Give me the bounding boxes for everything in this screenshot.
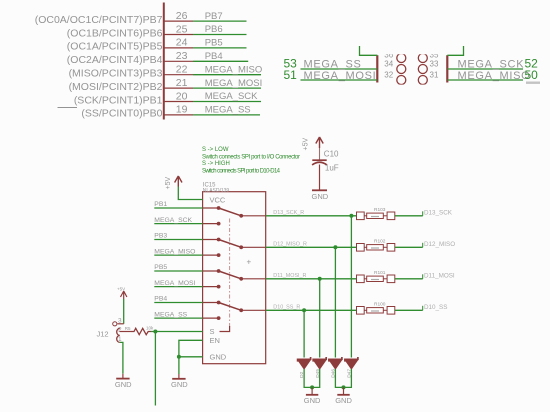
op-amp IC15 body <box>203 192 266 364</box>
node J12 jumper <box>97 318 132 344</box>
svg-text:36: 36 <box>384 50 393 59</box>
wire R5 to S pin <box>151 330 203 406</box>
wire GND pin of IC15 <box>177 355 203 359</box>
svg-text:D11_MOSI_R: D11_MOSI_R <box>273 273 306 279</box>
wire net MEGA_MISO from pin31 <box>447 79 523 81</box>
diode D46 <box>329 357 342 378</box>
node PB5 pin row <box>67 37 247 53</box>
svg-text:(MOSI/PCINT2)PB2: (MOSI/PCINT2)PB2 <box>69 81 163 93</box>
svg-text:PB5: PB5 <box>205 38 223 49</box>
svg-text:R100: R100 <box>374 302 386 308</box>
node connector contact circles row 3 <box>397 76 406 85</box>
svg-text:22: 22 <box>176 64 188 76</box>
node PB3 pin row <box>69 64 263 80</box>
svg-text:R101: R101 <box>374 270 386 276</box>
node connector contact circles row 1 <box>397 54 406 63</box>
svg-text:VCC: VCC <box>210 196 226 205</box>
svg-text:51: 51 <box>284 68 298 82</box>
wire to net label D10_SS <box>395 304 448 311</box>
wire MEGA_SS input <box>154 311 202 318</box>
ground for diodes 1-2 <box>304 395 321 405</box>
svg-text:S -> LOW: S -> LOW <box>202 147 229 153</box>
node partial next row marks <box>526 82 540 84</box>
wire net MEGA_SCK from pin33 <box>447 68 523 70</box>
svg-text:(OC1B/PCINT6)PB6: (OC1B/PCINT6)PB6 <box>67 27 163 39</box>
wire to net label D11_MOSI <box>395 273 455 280</box>
svg-text:PB5: PB5 <box>154 264 167 271</box>
svg-text:MEGA_SCK: MEGA_SCK <box>458 59 525 71</box>
svg-text:D12_MISO: D12_MISO <box>424 241 455 248</box>
resistor R100 <box>357 302 395 315</box>
svg-text:PB6: PB6 <box>205 24 223 35</box>
svg-text:25: 25 <box>176 23 188 35</box>
svg-text:(SS/PCINT0)PB0: (SS/PCINT0)PB0 <box>81 108 162 120</box>
ground for J12 <box>115 379 132 389</box>
svg-text:(OC2A/PCINT4)PB4: (OC2A/PCINT4)PB4 <box>67 54 163 66</box>
wire connector right body bar <box>446 55 448 82</box>
wire EN pin to ground <box>179 340 203 374</box>
svg-text:GND: GND <box>312 192 329 201</box>
transistor switch section 3 of IC15 <box>203 269 266 288</box>
diode D47 <box>345 357 358 378</box>
svg-text:(SCK/PCINT1)PB1: (SCK/PCINT1)PB1 <box>74 94 163 106</box>
node connector contact circles row 0 <box>397 42 406 51</box>
power +5V symbol for C10 <box>303 137 324 151</box>
wire net MEGA_SS to pin34 <box>301 68 378 70</box>
node PB4 pin row <box>67 50 248 66</box>
ground for diodes 3-4 <box>335 395 352 405</box>
wire +5V to C10 <box>319 148 321 160</box>
svg-text:D10_SS: D10_SS <box>424 304 447 311</box>
svg-text:GND: GND <box>115 380 132 389</box>
svg-text:MEGA_MOSI: MEGA_MOSI <box>205 78 263 89</box>
ground for IC15 <box>171 379 188 389</box>
svg-text:GND: GND <box>210 353 227 362</box>
svg-text:MEGA_SS: MEGA_SS <box>154 311 187 318</box>
svg-text:Switch connects SPI port to I/: Switch connects SPI port to I/O Connecto… <box>202 154 300 160</box>
wire net MEGA_MOSI to pin32 <box>301 79 378 81</box>
svg-text:D13_SCK: D13_SCK <box>424 210 453 217</box>
node IC15 name labels <box>203 182 230 194</box>
capacitor C10 <box>312 150 339 173</box>
resistor R102 <box>357 239 395 252</box>
wire MEGA_MOSI input <box>154 280 202 287</box>
svg-text:MEGA_SCK: MEGA_SCK <box>154 217 192 224</box>
wire to net label D12_MISO <box>395 241 455 248</box>
svg-text:MEGA_SS: MEGA_SS <box>205 105 251 116</box>
transistor switch section 4 of IC15 <box>203 301 266 320</box>
svg-text:C10: C10 <box>324 150 339 159</box>
svg-text:(OC0A/OC1C/PCINT7)PB7: (OC0A/OC1C/PCINT7)PB7 <box>35 14 163 26</box>
wire J12 pin1 to ground <box>120 342 123 373</box>
wire connector left body bar <box>376 55 378 82</box>
svg-text:D10_SS_R: D10_SS_R <box>273 305 300 311</box>
wire overline for SS pin name <box>58 107 78 109</box>
wire diode pair 1 to ground <box>304 369 320 394</box>
svg-text:R103: R103 <box>374 207 386 213</box>
svg-text:+5V: +5V <box>165 177 172 190</box>
resistor R103 <box>357 207 395 220</box>
node PB7 pin row <box>35 10 247 26</box>
wire MEGA_MISO input <box>154 248 202 255</box>
wire D12_MISO_R output <box>266 242 357 358</box>
svg-text:21: 21 <box>176 77 188 89</box>
svg-text:MEGA_MOSI: MEGA_MOSI <box>154 280 195 287</box>
svg-text:PB4: PB4 <box>154 296 167 303</box>
wire D13_SCK_R output <box>266 210 357 358</box>
svg-text:MEGA_MOSI: MEGA_MOSI <box>304 70 377 82</box>
svg-text:2: 2 <box>118 326 122 333</box>
wire pin35 stub <box>447 46 463 55</box>
svg-text:35: 35 <box>430 50 439 59</box>
wire to net label D13_SCK <box>395 210 453 217</box>
svg-text:20: 20 <box>176 90 188 102</box>
svg-text:D12_MISO_R: D12_MISO_R <box>273 242 307 248</box>
svg-text:33: 33 <box>430 60 439 69</box>
svg-text:(OC1A/PCINT5)PB5: (OC1A/PCINT5)PB5 <box>67 41 163 53</box>
svg-text:D11_MOSI: D11_MOSI <box>424 273 455 280</box>
power +5V symbol for J12 <box>117 286 127 299</box>
svg-text:GND: GND <box>304 396 321 405</box>
svg-text:PB4: PB4 <box>205 51 223 62</box>
svg-text:PB3: PB3 <box>154 233 167 240</box>
wire S pin linkage <box>220 326 230 332</box>
svg-text:+5V: +5V <box>117 286 125 291</box>
transistor switch section 2 of IC15 <box>203 238 266 257</box>
wire +5V to VCC pin <box>178 187 202 200</box>
resistor R5 <box>125 325 154 334</box>
svg-text:PB1: PB1 <box>154 201 167 208</box>
wire diode pair 2 to ground <box>335 369 351 394</box>
svg-text:19: 19 <box>176 104 188 116</box>
svg-text:J12: J12 <box>97 330 109 339</box>
svg-text:MEGA_MISO: MEGA_MISO <box>205 64 263 75</box>
svg-text:D13_SCK_R: D13_SCK_R <box>273 210 304 216</box>
IC U1 ATmega port-B symbol body edge <box>163 3 165 120</box>
svg-text:S: S <box>210 327 215 336</box>
wire MEGA_SCK input <box>154 217 202 224</box>
ground below C10 <box>312 190 329 201</box>
svg-text:Switch connects SPI port to D1: Switch connects SPI port to D10-D14 <box>202 169 281 175</box>
node PB6 pin row <box>67 23 247 39</box>
wire PB5 input <box>154 264 202 271</box>
wire PB4 input <box>154 296 202 303</box>
node PB2 pin row <box>69 77 263 93</box>
svg-text:MEGA_MISO: MEGA_MISO <box>154 248 195 255</box>
svg-text:1uF: 1uF <box>325 164 339 173</box>
svg-text:24: 24 <box>176 37 188 49</box>
svg-text:GND: GND <box>171 380 188 389</box>
transistor switch section 1 of IC15 <box>203 206 266 225</box>
node connector contact circles row 2 <box>397 65 406 74</box>
svg-text:+5V: +5V <box>303 138 310 151</box>
svg-text:MEGA_SCK: MEGA_SCK <box>205 91 258 102</box>
svg-text:50: 50 <box>525 68 539 82</box>
svg-text:MEGA_MISO: MEGA_MISO <box>458 70 531 82</box>
svg-text:MEGA_SS: MEGA_SS <box>304 59 362 71</box>
power +5V symbol for IC15 <box>165 176 182 190</box>
wire +5V to J12 pin 3 <box>123 299 125 324</box>
svg-text:PB7: PB7 <box>205 11 223 22</box>
svg-text:+: + <box>247 258 252 267</box>
svg-text:R102: R102 <box>374 239 386 245</box>
diode D45 <box>313 357 326 378</box>
wire PB1 input <box>154 201 202 208</box>
node PB1 pin row <box>74 90 261 106</box>
wire D11_MOSI_R output <box>266 273 357 358</box>
svg-text:(MISO/PCINT3)PB3: (MISO/PCINT3)PB3 <box>69 68 163 80</box>
svg-text:NLASD/139: NLASD/139 <box>203 188 230 194</box>
wire actuator dash-dot link <box>229 219 231 328</box>
svg-text:32: 32 <box>384 71 393 80</box>
svg-text:34: 34 <box>384 60 393 69</box>
wire C10 to GND <box>319 165 321 190</box>
wire PB3 input <box>154 233 202 240</box>
resistor R101 <box>357 270 395 283</box>
svg-text:R5: R5 <box>125 326 131 331</box>
node PB0 pin row <box>81 104 260 120</box>
svg-text:3: 3 <box>118 318 122 325</box>
diode D2 <box>298 357 311 378</box>
wire pin36 stub <box>360 46 378 55</box>
wire D10_SS_R output <box>266 305 357 358</box>
svg-text:23: 23 <box>176 50 188 62</box>
svg-text:10k: 10k <box>146 325 154 330</box>
svg-text:S -> HIGH: S -> HIGH <box>202 161 230 167</box>
svg-text:31: 31 <box>430 71 439 80</box>
svg-text:EN: EN <box>210 336 220 345</box>
svg-text:GND: GND <box>335 396 352 405</box>
svg-text:26: 26 <box>176 10 188 22</box>
